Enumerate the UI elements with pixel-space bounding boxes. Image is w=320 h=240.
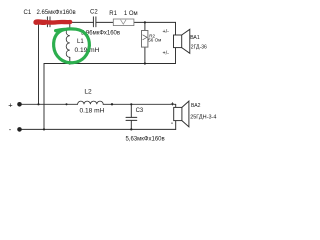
- svg-text:C2: C2: [90, 10, 98, 16]
- svg-text:-: -: [171, 121, 173, 127]
- svg-text:L1: L1: [77, 39, 84, 45]
- svg-text:C3: C3: [136, 108, 144, 114]
- svg-text:ВА1: ВА1: [190, 35, 200, 41]
- svg-text:R1: R1: [109, 11, 117, 17]
- svg-text:0.18 mH: 0.18 mH: [80, 107, 105, 114]
- svg-text:2.65мкФх160в: 2.65мкФх160в: [37, 10, 76, 16]
- svg-text:25ГДН-3-4: 25ГДН-3-4: [190, 115, 216, 121]
- svg-text:L2: L2: [84, 89, 92, 96]
- svg-text:+/-: +/-: [163, 29, 170, 35]
- svg-text:ВА2: ВА2: [191, 103, 201, 109]
- svg-text:+/-: +/-: [163, 50, 170, 56]
- svg-text:5,63мкФх160в: 5,63мкФх160в: [126, 137, 165, 143]
- svg-text:1 Ом: 1 Ом: [124, 11, 138, 17]
- svg-text:+: +: [171, 102, 175, 108]
- svg-text:56 Ом: 56 Ом: [148, 38, 161, 43]
- svg-text:C1: C1: [24, 10, 32, 16]
- svg-text:2ГД-36: 2ГД-36: [191, 45, 207, 51]
- svg-text:+: +: [8, 100, 13, 109]
